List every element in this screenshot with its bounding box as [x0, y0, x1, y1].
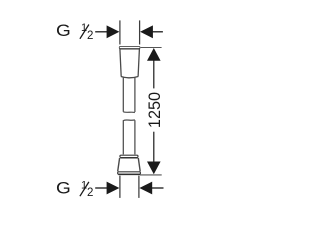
svg-text:G: G: [56, 21, 71, 40]
svg-text:2: 2: [87, 30, 93, 42]
svg-text:1250: 1250: [146, 92, 164, 128]
